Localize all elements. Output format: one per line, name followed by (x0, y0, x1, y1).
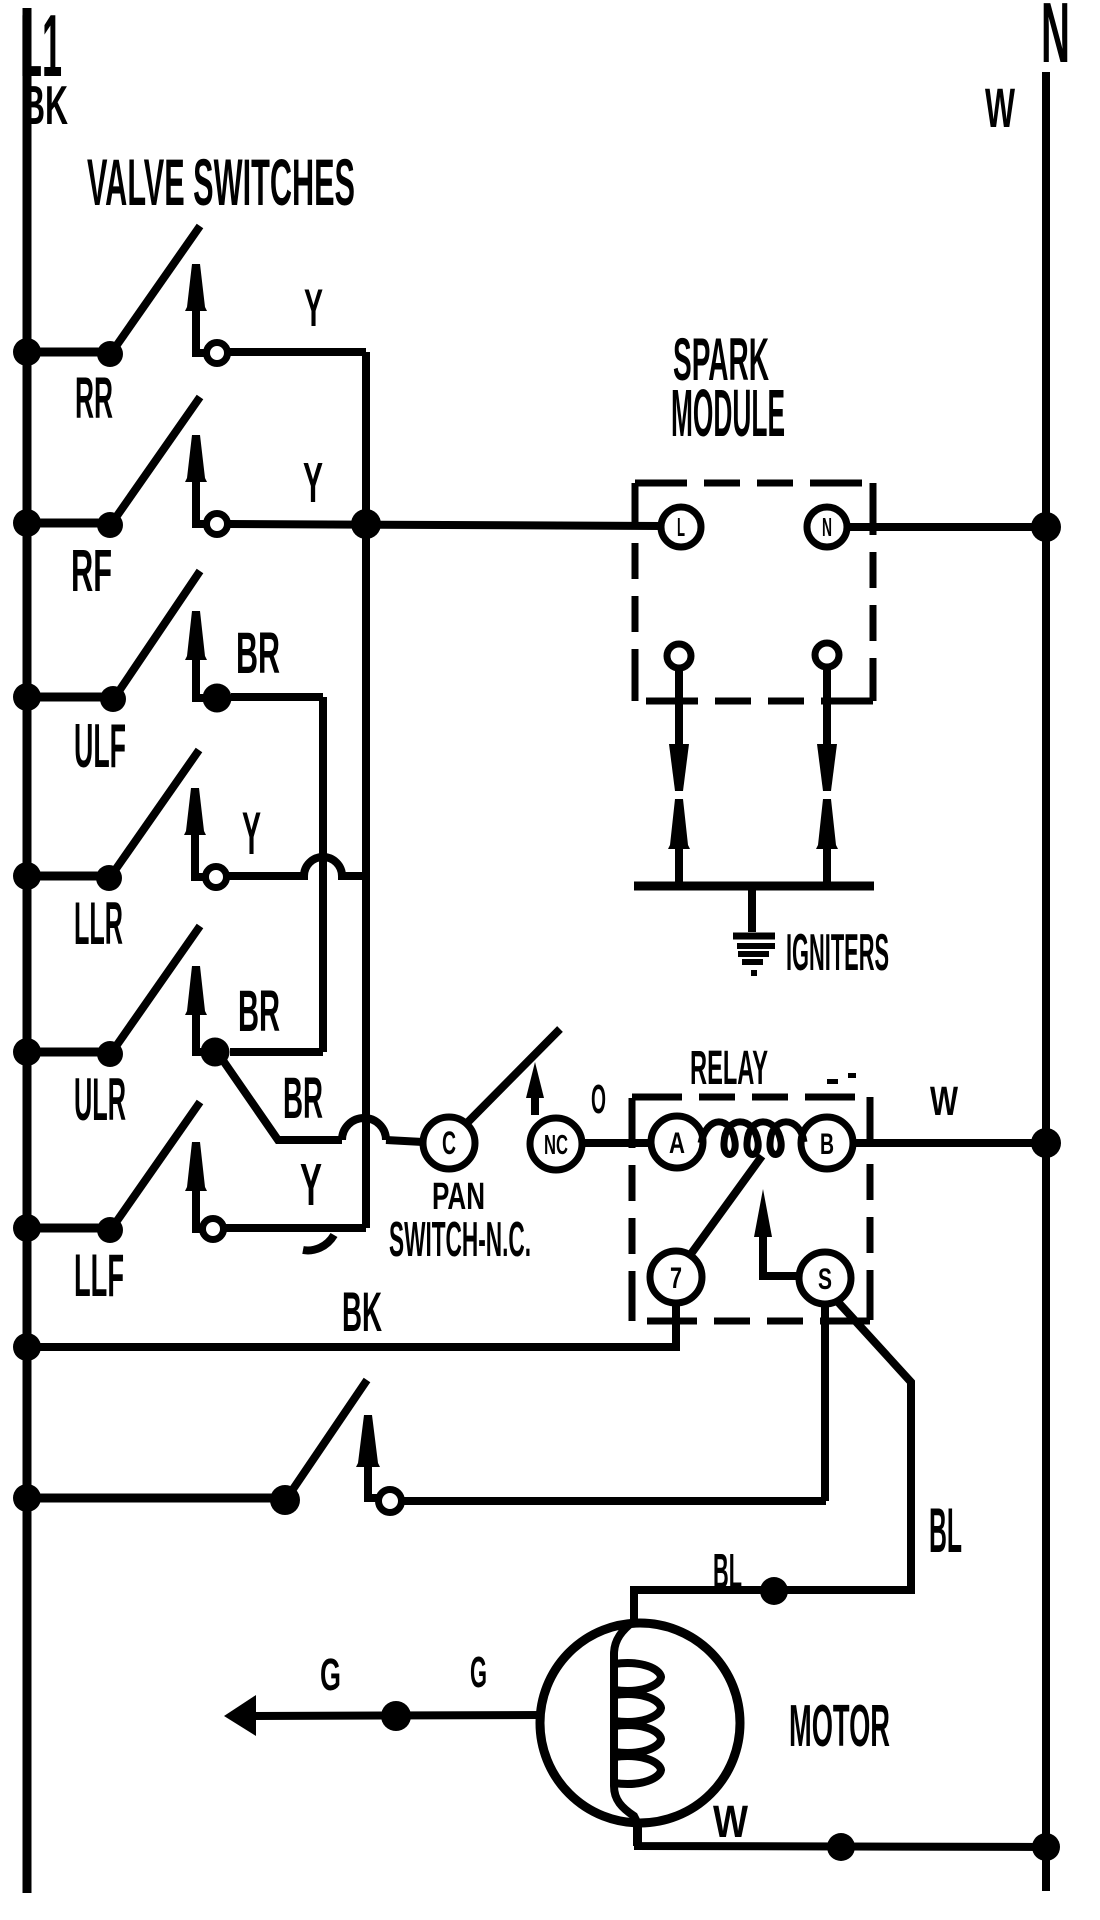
contact RR (207, 343, 228, 364)
wire W: relay B to N bus (853, 1078, 1046, 1143)
valve switch LLR (13, 750, 366, 957)
label SPARK MODULE (671, 326, 785, 451)
svg-text:BK: BK (22, 74, 68, 136)
blade broil switch (287, 1380, 367, 1498)
svg-text:BR: BR (236, 621, 280, 686)
node G wire junction (381, 1701, 411, 1731)
contact ULF (203, 684, 232, 713)
blade ULF (115, 571, 200, 697)
pivot dot LLR (96, 865, 122, 891)
relay actuator arrow from terminal S (754, 1189, 799, 1276)
stray scan marks right of RELAY (827, 1079, 838, 1084)
wire ULR output (BR) (230, 1048, 323, 1056)
actuator arrow RR (196, 311, 208, 353)
wire ULF output (BR) (231, 693, 323, 701)
wire W: motor to N bus (638, 1796, 1060, 1861)
motor body circle (540, 1623, 740, 1823)
contact RF (207, 514, 228, 535)
pan switch terminal C (423, 1117, 475, 1169)
svg-text:A: A (669, 1127, 685, 1160)
node W wire junction (827, 1833, 855, 1861)
wire LLR output (Y) (227, 857, 366, 876)
wire BR from ULR to pan switch (222, 1059, 423, 1142)
svg-text:BL: BL (929, 1496, 962, 1566)
wire BK: L1 bus to relay terminal 7 (13, 1280, 676, 1361)
node L1/BK junction (13, 1333, 41, 1361)
ground symbol (733, 936, 775, 973)
svg-text:BR: BR (238, 979, 280, 1044)
ground stem (748, 890, 756, 932)
valve switch ULR (13, 926, 323, 1133)
wire BR bus (ULF to ULR) (319, 697, 327, 1052)
relay armature from terminal 7 to coil (688, 1156, 762, 1258)
pivot dot LLF (97, 1217, 123, 1243)
contact LLR (206, 867, 227, 888)
node N bus / relay junction (1031, 1128, 1061, 1158)
actuator arrow RF (196, 482, 208, 524)
svg-text:Y: Y (303, 451, 323, 515)
node N bus / W wire junction (1032, 1833, 1060, 1861)
igniter spark gap 1 (668, 668, 690, 886)
valve switch LLF (13, 1102, 366, 1309)
svg-text:7: 7 (670, 1262, 682, 1295)
actuator arrow LLF (196, 1191, 204, 1229)
svg-text:NC: NC (544, 1129, 568, 1160)
wire L1 to ULR pivot (27, 1048, 111, 1057)
actuator arrow LLR (195, 835, 207, 877)
igniter common bar (634, 882, 874, 891)
stray pen mark below LLF wire (303, 1235, 334, 1250)
svg-text:VALVE SWITCHES: VALVE SWITCHES (87, 145, 355, 219)
svg-text:BK: BK (342, 1280, 382, 1343)
spark module igniter terminal 1 (667, 644, 691, 668)
svg-text:ULF: ULF (74, 712, 126, 781)
wire spark module N terminal to N bus (847, 523, 1046, 531)
node N bus / spark module junction (1031, 512, 1061, 542)
node L1/ULF junction (13, 683, 41, 711)
wire broil switch to relay S (821, 1305, 829, 1501)
svg-text:L: L (677, 512, 685, 542)
wire L1 to RR pivot (27, 348, 111, 357)
contact LLF (203, 1219, 224, 1240)
contact broil switch (379, 1490, 402, 1513)
svg-text:G: G (320, 1649, 341, 1700)
svg-text:Y: Y (242, 800, 261, 867)
wire BL: relay S to motor (634, 1302, 962, 1624)
svg-text:W: W (713, 1796, 748, 1847)
node L1/LLR junction (13, 862, 41, 890)
svg-text:IGNITERS: IGNITERS (786, 924, 889, 982)
wire L1 to broil pivot (27, 1494, 285, 1503)
oven broil switch (13, 1380, 826, 1515)
svg-text:Y: Y (304, 279, 323, 338)
wire L1 bus (23, 8, 32, 1893)
node L1/LLF junction (13, 1214, 41, 1242)
wire RF output (Y) (228, 524, 661, 526)
motor winding spine (614, 1621, 637, 1846)
blade RF (112, 397, 200, 523)
wire RR output (Y) (228, 348, 366, 356)
svg-text:MODULE: MODULE (671, 376, 785, 451)
wire LLF output (Y) (224, 1224, 366, 1232)
svg-text:MOTOR: MOTOR (789, 1693, 890, 1759)
wire O: pan switch NC to relay A (582, 1076, 651, 1143)
motor winding loop 4 (614, 1756, 661, 1784)
contact ULR (201, 1038, 230, 1067)
wire L1 to LLF pivot (27, 1224, 111, 1233)
svg-text:B: B (820, 1128, 834, 1161)
pivot dot RF (97, 512, 123, 538)
relay terminal B (801, 1117, 853, 1169)
wire L1 to ULF pivot (27, 693, 111, 702)
valve switch ULF (13, 571, 323, 781)
pan switch actuator arrow (526, 1062, 544, 1115)
svg-text:C: C (442, 1125, 456, 1161)
wire BR into pan switch C (386, 1140, 423, 1142)
spark module igniter terminal 2 (815, 643, 839, 667)
node Y bus / RF junction (351, 509, 381, 539)
pivot dot RR (97, 341, 123, 367)
svg-text:N: N (1041, 0, 1070, 81)
spark module terminal N (807, 507, 847, 547)
svg-text:ULR: ULR (74, 1066, 126, 1133)
relay coil K1 (701, 1122, 804, 1155)
relay box (632, 1097, 870, 1321)
valve switch RF (13, 397, 661, 604)
wire N bus (1042, 72, 1050, 1891)
pan switch terminal NC (530, 1118, 582, 1170)
wire L1 to LLR pivot (27, 872, 111, 881)
label PAN SWITCH-N.C. (389, 1176, 531, 1267)
motor M1 (540, 1621, 890, 1846)
pivot dot ULR (97, 1041, 123, 1067)
svg-text:BL: BL (713, 1545, 742, 1599)
blade LLF (112, 1102, 200, 1228)
svg-text:S: S (818, 1263, 832, 1296)
svg-text:RR: RR (75, 366, 113, 431)
igniter spark gap 2 (816, 667, 838, 886)
blade RR (112, 226, 200, 352)
node L1/broil switch junction (13, 1484, 41, 1512)
blade LLR (111, 750, 199, 876)
svg-text:O: O (591, 1076, 606, 1122)
motor winding loop 1 (614, 1663, 661, 1691)
svg-text:G: G (470, 1648, 487, 1697)
node L1/ULR junction (13, 1038, 41, 1066)
svg-text:N: N (822, 512, 832, 542)
wire L1 to RF pivot (27, 519, 111, 528)
svg-text:RF: RF (71, 538, 112, 604)
node L1/RF junction (13, 509, 41, 537)
wire G: motor to chassis ground arrow (224, 1648, 542, 1736)
wire hop over Y bus (342, 1118, 386, 1140)
svg-text:W: W (985, 76, 1015, 139)
valve switch RR (13, 226, 366, 431)
svg-text:BR: BR (283, 1066, 323, 1131)
motor winding loop 3 (614, 1725, 661, 1753)
relay terminal 7 (650, 1251, 702, 1303)
pivot dot broil switch (270, 1485, 300, 1515)
node L1/RR junction (13, 338, 41, 366)
svg-text:LLR: LLR (74, 890, 123, 957)
actuator arrow ULR (196, 1015, 202, 1052)
chassis arrow head (224, 1695, 256, 1736)
svg-text:LLF: LLF (74, 1242, 124, 1309)
pivot dot ULF (100, 686, 126, 712)
actuator arrow broil switch (368, 1467, 380, 1498)
pan switch blade (468, 1029, 560, 1122)
relay terminal A (651, 1116, 703, 1168)
wire broil switch output (402, 1497, 826, 1505)
spark module box (635, 483, 873, 701)
svg-text:W: W (930, 1078, 958, 1124)
svg-text:PAN: PAN (432, 1176, 485, 1218)
wire Y bus (362, 352, 370, 1228)
spark module terminal L (661, 507, 701, 547)
wire BR diagonal from ULR contact (222, 1059, 342, 1140)
node BL wire junction (760, 1577, 788, 1605)
motor winding loop 2 (614, 1694, 661, 1722)
svg-text:SWITCH-N.C.: SWITCH-N.C. (389, 1213, 531, 1267)
blade ULR (112, 926, 200, 1052)
svg-text:Y: Y (300, 1152, 322, 1218)
svg-text:RELAY: RELAY (690, 1042, 768, 1095)
actuator arrow ULF (196, 660, 204, 698)
relay terminal S (799, 1252, 851, 1304)
